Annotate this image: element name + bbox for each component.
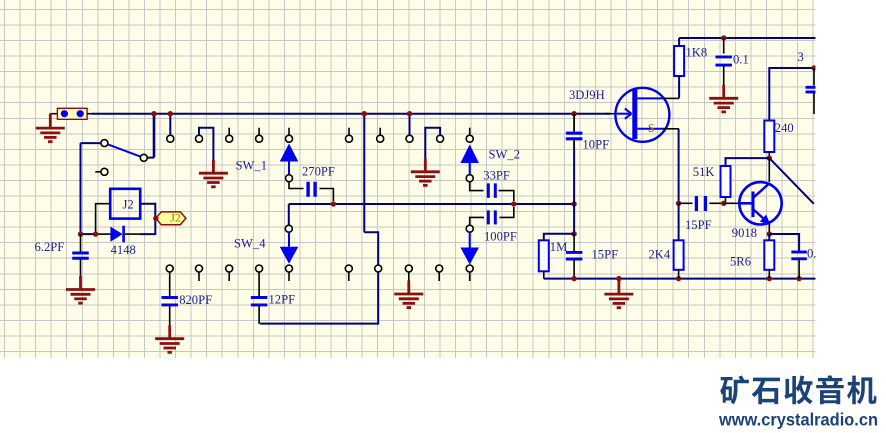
svg-text:33PF: 33PF — [483, 169, 510, 183]
svg-text:270PF: 270PF — [302, 165, 335, 179]
svg-text:6.2PF: 6.2PF — [35, 240, 65, 254]
svg-text:3DJ9H: 3DJ9H — [569, 88, 605, 102]
svg-text:9018: 9018 — [732, 226, 757, 240]
svg-text:240: 240 — [775, 121, 794, 135]
svg-text:SW_1: SW_1 — [236, 159, 267, 173]
svg-text:0.: 0. — [807, 246, 816, 260]
svg-text:2K4: 2K4 — [649, 247, 671, 261]
svg-text:3: 3 — [798, 50, 804, 64]
svg-text:www.crystalradio.cn: www.crystalradio.cn — [718, 410, 878, 430]
svg-text:s: s — [648, 117, 654, 136]
svg-text:820PF: 820PF — [179, 293, 212, 307]
svg-text:1K8: 1K8 — [686, 45, 708, 59]
svg-text:51K: 51K — [693, 165, 715, 179]
svg-text:12PF: 12PF — [269, 293, 296, 307]
svg-text:10PF: 10PF — [583, 138, 610, 152]
svg-text:4148: 4148 — [111, 243, 136, 257]
svg-text:J2: J2 — [170, 211, 181, 225]
svg-text:SW_4: SW_4 — [234, 236, 266, 250]
svg-text:15PF: 15PF — [685, 218, 712, 232]
svg-text:15PF: 15PF — [592, 248, 619, 262]
svg-text:J2: J2 — [123, 198, 134, 212]
svg-text:SW_2: SW_2 — [489, 147, 520, 161]
svg-text:1M: 1M — [550, 240, 568, 254]
svg-text:5R6: 5R6 — [730, 255, 751, 269]
svg-text:100PF: 100PF — [484, 229, 517, 243]
svg-text:0.1: 0.1 — [733, 52, 749, 66]
